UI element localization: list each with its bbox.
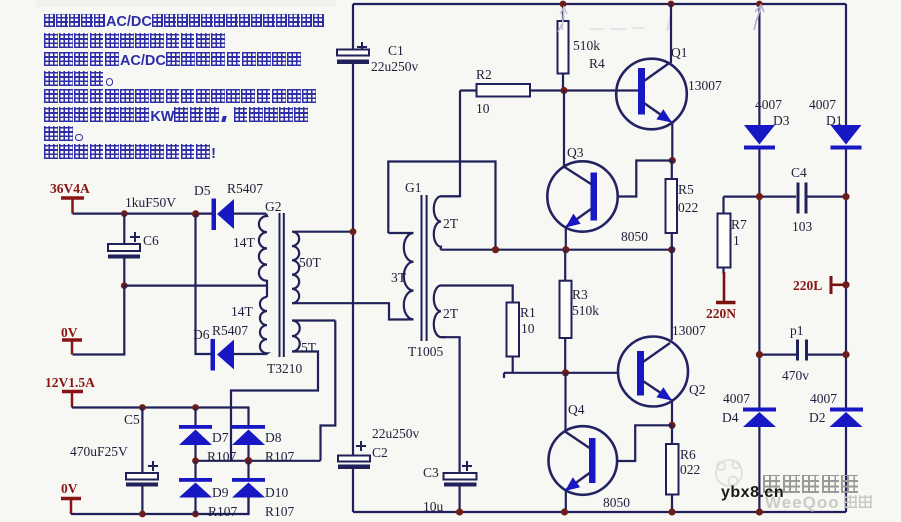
svg-text:G2: G2 (265, 199, 282, 214)
G2 core (280, 213, 284, 357)
watermark logo ghost (716, 460, 742, 486)
svg-text:R4: R4 (589, 56, 605, 71)
capacitor C3 (423, 461, 477, 514)
node D8 anode mid (245, 457, 253, 465)
resistor R5 (666, 161, 699, 250)
chinese paragraph line 2 (44, 33, 226, 48)
wire 0V bottom rail (71, 497, 249, 514)
transistor Q4 (549, 373, 618, 512)
resistor R7 (718, 197, 748, 274)
transistor Q1 (616, 4, 687, 161)
wire 5T top lead (321, 321, 336, 461)
node junction C6 bottom / center tap (121, 282, 128, 289)
svg-text:C6: C6 (143, 233, 159, 248)
svg-text:022: 022 (678, 200, 698, 215)
svg-text:1kuF50V: 1kuF50V (125, 195, 176, 210)
svg-text:T1005: T1005 (408, 344, 443, 359)
wire R2 left riser to G1 2T top (441, 91, 461, 197)
wire bridge mid (196, 460, 321, 462)
svg-text:0V: 0V (61, 481, 78, 496)
svg-text:3T: 3T (391, 270, 407, 285)
svg-text:22u250v: 22u250v (372, 426, 420, 441)
svg-text:R107: R107 (208, 504, 238, 519)
chinese paragraph line 7 (44, 126, 89, 142)
svg-text:R5: R5 (678, 182, 694, 197)
node C4 row D3 line (756, 193, 763, 200)
svg-text:D8: D8 (265, 430, 282, 445)
node C5 top (139, 404, 146, 411)
svg-text:5T: 5T (301, 340, 317, 355)
svg-text:22u250v: 22u250v (371, 59, 419, 74)
svg-text:4007: 4007 (810, 391, 837, 406)
ghost arrow artifact left (558, 7, 567, 32)
G2 primary winding 14T upper (259, 214, 267, 297)
diode D4 (722, 391, 776, 427)
svg-text:R107: R107 (265, 449, 295, 464)
wire Q4 base path (617, 425, 672, 461)
diode D6 (193, 323, 267, 371)
svg-text:470uF25V: 470uF25V (70, 444, 128, 459)
svg-text:R3: R3 (572, 287, 588, 302)
svg-text:8050: 8050 (603, 495, 630, 510)
chinese paragraph line 3 (44, 52, 303, 67)
node rail Q3 emitter (562, 246, 569, 253)
svg-text:470v: 470v (782, 368, 809, 383)
node p1 row right border (842, 351, 849, 358)
transformer G1 (388, 195, 512, 473)
ghost dash artifact mid (590, 10, 671, 31)
terminal 36V4A (50, 181, 90, 214)
transistor Q3 (547, 91, 617, 250)
svg-text:12V1.5A: 12V1.5A (45, 375, 95, 390)
svg-text:D5: D5 (194, 183, 211, 198)
wire 2T bottom top lead to R1 (441, 286, 513, 303)
svg-text:10: 10 (476, 101, 490, 116)
svg-text:R5407: R5407 (212, 323, 248, 338)
G1 winding 2T top (434, 196, 460, 249)
wire 2T bottom lower lead to C3 (441, 337, 460, 473)
svg-text:R6: R6 (680, 447, 696, 462)
svg-text:T3210: T3210 (267, 361, 302, 376)
capacitor C4 (791, 165, 846, 234)
node junction on 36V rail at D5/D6 riser (192, 210, 200, 218)
node top border Q1 collector (668, 1, 675, 8)
wire R7 C4 row (724, 196, 797, 198)
resistor R1 (507, 303, 536, 373)
svg-text:103: 103 (792, 219, 813, 234)
wire D6 cathode riser (196, 214, 211, 354)
node Q1 emitter / Q3 base junction (669, 157, 676, 164)
wire 5T bottom lead (231, 352, 318, 461)
svg-text:D6: D6 (193, 327, 210, 342)
node rail R5 bottom (668, 246, 675, 253)
watermark WeeQoo (765, 493, 874, 513)
terminal 0V lower (61, 481, 81, 514)
node bottom Q4 emitter (561, 508, 568, 515)
svg-text:C2: C2 (372, 445, 388, 460)
wire Q3 base to Q1 emitter (618, 161, 673, 197)
node bottom D4 (756, 508, 763, 515)
svg-text:2T: 2T (443, 306, 459, 321)
svg-text:R1: R1 (520, 305, 536, 320)
node top border D3 (756, 1, 763, 8)
transistor Q2 (618, 337, 688, 426)
G1 core (422, 195, 427, 341)
terminal 220N (706, 272, 736, 321)
svg-text:D3: D3 (773, 113, 790, 128)
svg-text:13007: 13007 (672, 323, 706, 338)
svg-text:14T: 14T (233, 235, 256, 250)
diode D10 (232, 461, 265, 514)
svg-text:220N: 220N (706, 306, 736, 321)
svg-text:022: 022 (680, 462, 700, 477)
svg-text:510k: 510k (573, 38, 600, 53)
node bottom R6 (668, 508, 675, 515)
ghost arrow artifact right (754, 5, 764, 30)
node R2 R4 Q1 base junction (560, 87, 567, 94)
wire center tap to G2 (124, 285, 267, 287)
terminal 12V1.5A (45, 375, 95, 408)
svg-text:8050: 8050 (621, 229, 648, 244)
svg-text:Q4: Q4 (568, 402, 585, 417)
svg-text:Q2: Q2 (689, 382, 706, 397)
node D9 bottom (192, 511, 199, 518)
diode D9 (179, 461, 212, 514)
node top border R4 (560, 1, 567, 8)
G2 secondary 50T winding (292, 232, 353, 304)
svg-text:p1: p1 (790, 323, 804, 338)
node C5 bottom (139, 511, 146, 518)
diode D7 (179, 408, 212, 461)
svg-text:4007: 4007 (755, 97, 782, 112)
wire R1 R3 Q2 base junction row (504, 373, 618, 378)
wire 36V rail (73, 213, 212, 215)
svg-text:10: 10 (521, 321, 535, 336)
chinese paragraph line 6 (44, 107, 309, 122)
svg-text:4007: 4007 (723, 391, 750, 406)
wire 12V rail (72, 408, 249, 426)
terminal 0V upper (61, 325, 82, 355)
svg-text:D9: D9 (212, 485, 229, 500)
resistor R3 (560, 250, 600, 373)
svg-text:R7: R7 (731, 217, 747, 232)
node p1 row D4 line (756, 351, 763, 358)
capacitor C5 (70, 408, 158, 515)
svg-text:1: 1 (733, 233, 740, 248)
node C4 row right border (842, 193, 849, 200)
svg-text:13007: 13007 (688, 78, 722, 93)
node R3 bottom junction (562, 369, 569, 376)
wire G1 box top (388, 162, 495, 250)
diode D1 (809, 97, 862, 150)
svg-text:50T: 50T (299, 255, 322, 270)
svg-text:D10: D10 (265, 485, 288, 500)
diode D2 (809, 391, 863, 427)
G1 winding 3T (388, 233, 413, 320)
svg-text:C3: C3 (423, 465, 439, 480)
resistor R2 (460, 67, 638, 116)
G2 secondary 5T winding (292, 321, 335, 352)
svg-text:10u: 10u (423, 499, 444, 514)
wire D3-D4 vertical rail (758, 4, 760, 512)
svg-text:Q3: Q3 (567, 145, 584, 160)
node junction on 36V rail at C6 (121, 210, 128, 217)
svg-text:R107: R107 (265, 504, 295, 519)
chinese paragraph line 5 (44, 89, 317, 104)
svg-text:D2: D2 (809, 410, 826, 425)
capacitor C1 (337, 42, 419, 74)
wire C6 bottom down to 0V (73, 286, 125, 355)
svg-text:220L: 220L (793, 278, 822, 293)
G1 winding 2T bottom (434, 286, 446, 338)
chinese paragraph line 4 (44, 70, 119, 86)
diode D8 (232, 425, 265, 461)
node 50T top at box border (350, 228, 357, 235)
chinese paragraph line 1 (44, 14, 325, 27)
resistor R4 (558, 4, 606, 91)
svg-text:D4: D4 (722, 410, 739, 425)
chinese paragraph line 8 (44, 144, 216, 159)
node rail G1 (492, 246, 499, 253)
node Q2 emitter R6 junction (668, 422, 675, 429)
svg-text:R5407: R5407 (227, 181, 263, 196)
node bottom C3 (456, 508, 463, 515)
G2 primary winding 14T lower (260, 297, 267, 354)
main circuit box border (353, 4, 846, 512)
svg-text:R107: R107 (207, 449, 237, 464)
watermark big gray characters (763, 475, 861, 493)
svg-text:Q1: Q1 (671, 45, 688, 60)
svg-text:36V4A: 36V4A (50, 181, 90, 196)
watermark ybx8.cn (721, 484, 784, 502)
terminal 220L (793, 276, 846, 294)
svg-text:14T: 14T (231, 304, 254, 319)
node D7 anode mid (192, 457, 199, 464)
svg-text:510k: 510k (572, 303, 599, 318)
svg-text:C4: C4 (791, 165, 807, 180)
capacitor p1 (759, 323, 846, 383)
node 220L right border (842, 281, 849, 288)
capacitor C2 (338, 426, 420, 469)
svg-text:4007: 4007 (809, 97, 836, 112)
transformer G2 (231, 199, 404, 461)
node D7 top (192, 404, 199, 411)
resistor R6 (666, 425, 700, 512)
diode D3 (744, 97, 790, 150)
svg-text:R2: R2 (476, 67, 492, 82)
svg-text:2T: 2T (443, 216, 459, 231)
svg-text:0V: 0V (61, 325, 78, 340)
wire 50T bottom lead (292, 303, 404, 319)
wire Q2 collector riser (671, 250, 673, 340)
wire emitter rail (441, 249, 672, 251)
capacitor C6 (108, 214, 159, 286)
svg-text:C5: C5 (124, 412, 140, 427)
svg-text:C1: C1 (388, 43, 404, 58)
diode D5 (194, 181, 266, 230)
svg-text:G1: G1 (405, 180, 422, 195)
svg-text:D7: D7 (212, 430, 229, 445)
